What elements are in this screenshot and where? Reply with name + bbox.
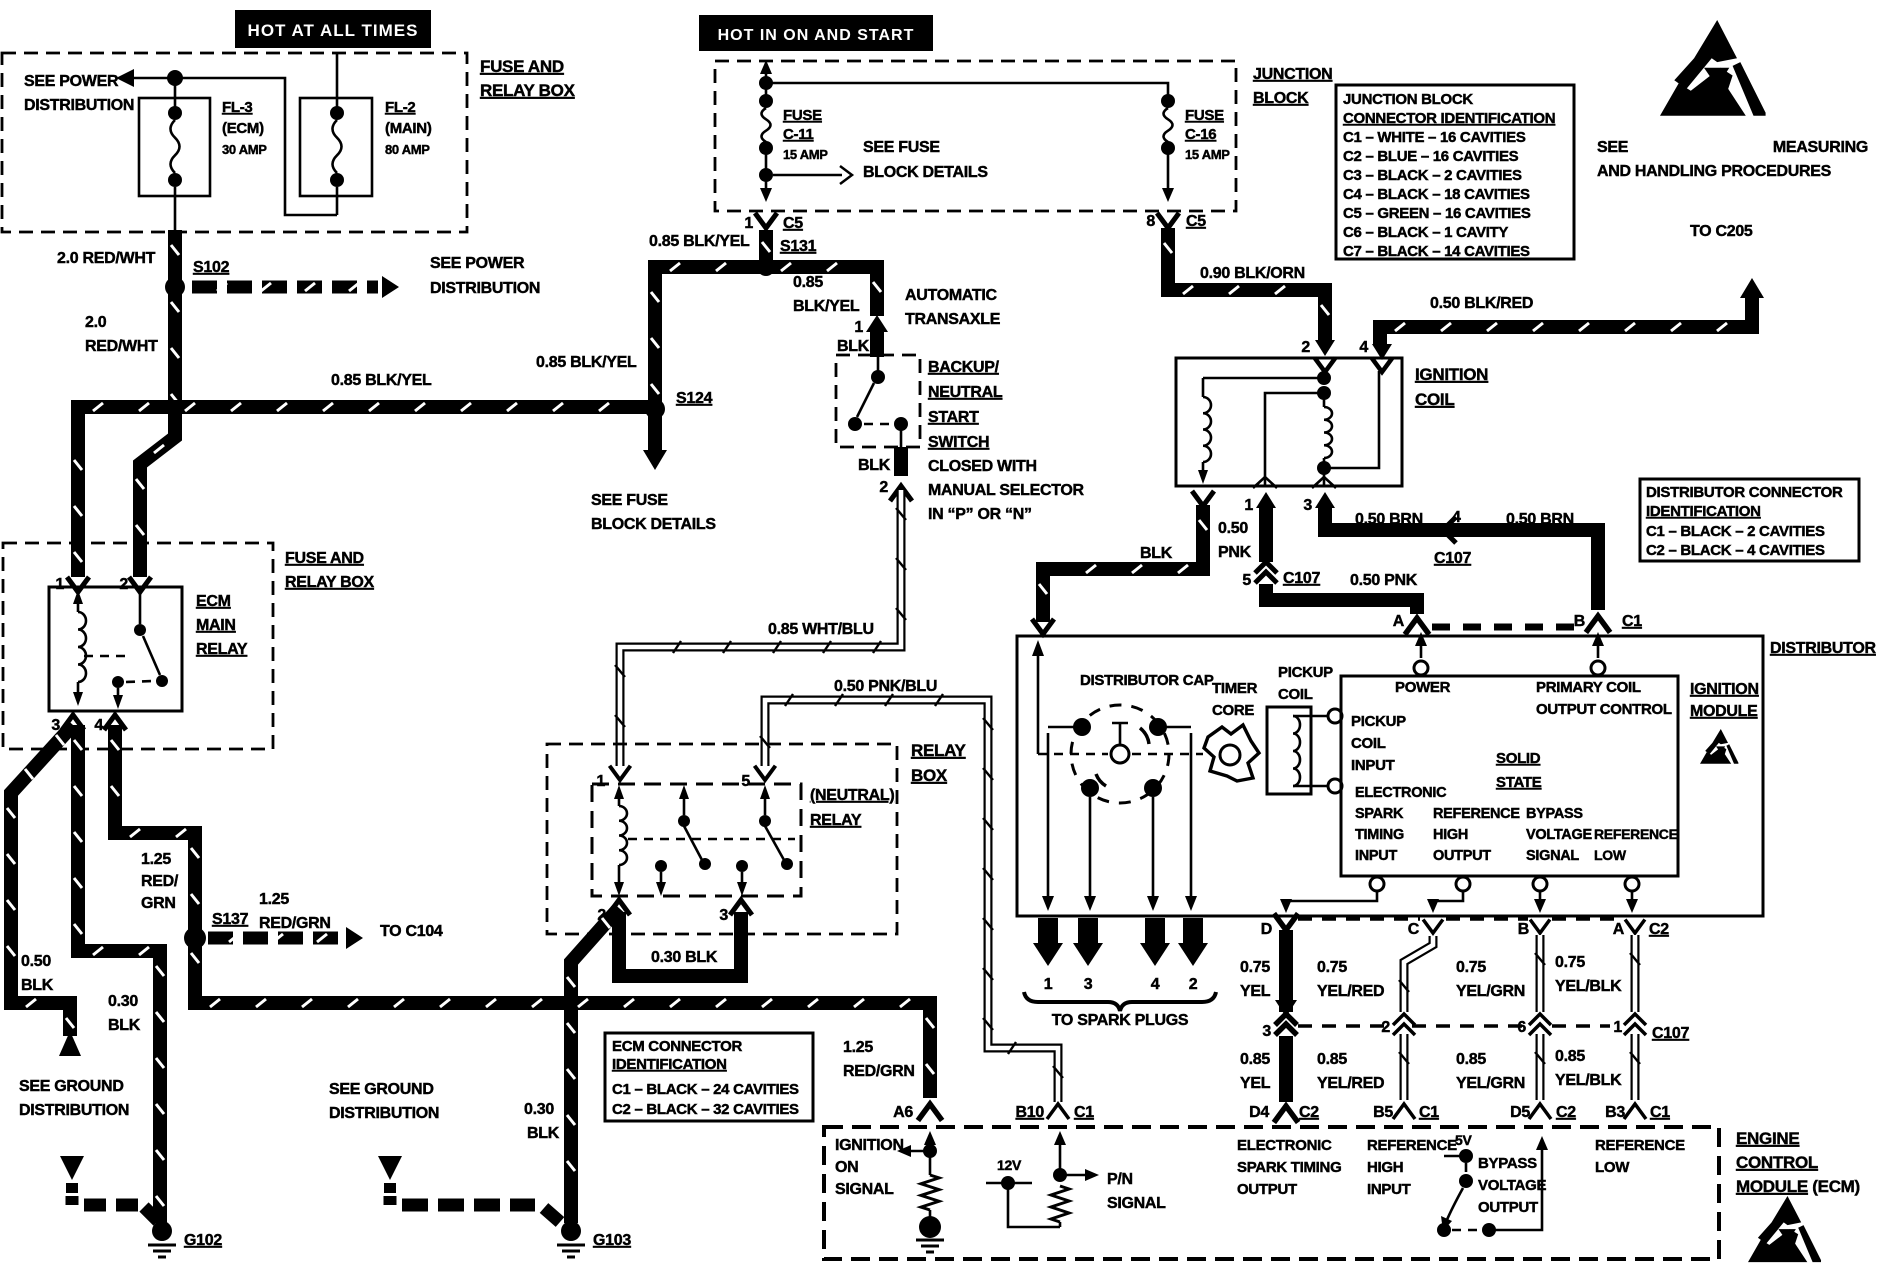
wire 0.90 BLK/ORN xyxy=(1164,228,1329,340)
svg-text:RED/GRN: RED/GRN xyxy=(843,1063,915,1080)
spark plug wire 2 xyxy=(1178,918,1208,993)
connector 1 (relay box) xyxy=(596,766,630,790)
svg-text:S124: S124 xyxy=(676,390,713,407)
svg-text:SIGNAL: SIGNAL xyxy=(1107,1195,1166,1212)
svg-text:15 AMP: 15 AMP xyxy=(783,147,828,162)
wire 0.75 YEL/GRN xyxy=(1535,935,1545,1012)
svg-text:DISTRIBUTOR CAP: DISTRIBUTOR CAP xyxy=(1080,672,1214,689)
neutral relay switch A xyxy=(655,785,711,896)
label 1.25 RED/GRN (vertical) xyxy=(141,851,179,912)
svg-text:C7 – BLACK – 14 CAVITIES: C7 – BLACK – 14 CAVITIES xyxy=(1343,243,1530,260)
svg-text:B10: B10 xyxy=(1016,1104,1045,1121)
svg-text:C1: C1 xyxy=(1650,1104,1670,1121)
svg-text:DISTRIBUTOR CONNECTOR: DISTRIBUTOR CONNECTOR xyxy=(1646,484,1843,501)
wire 0.85 YEL/BLK xyxy=(1630,1034,1640,1100)
node junction at FL-3 tap xyxy=(167,70,183,113)
label 0.85 YEL/BLK xyxy=(1555,1048,1622,1089)
spark plug wire 3 xyxy=(1073,918,1103,993)
svg-text:S102: S102 xyxy=(193,259,230,276)
svg-text:YEL: YEL xyxy=(1240,1075,1271,1092)
svg-text:2: 2 xyxy=(879,479,888,496)
svg-text:BLK: BLK xyxy=(108,1017,141,1034)
svg-text:STATE: STATE xyxy=(1496,774,1542,791)
svg-text:SOLID: SOLID xyxy=(1496,750,1541,767)
svg-text:C5 – GREEN – 16 CAVITIES: C5 – GREEN – 16 CAVITIES xyxy=(1343,205,1531,222)
svg-text:5: 5 xyxy=(741,773,750,790)
ECM relay switch xyxy=(112,592,168,709)
wire S137 to C104 (dashed arrow) xyxy=(208,927,363,949)
svg-text:C2: C2 xyxy=(1299,1104,1319,1121)
svg-text:0.50: 0.50 xyxy=(21,953,51,970)
svg-text:COIL: COIL xyxy=(1351,735,1386,752)
spark plug wire 1 xyxy=(1033,918,1063,993)
svg-text:OUTPUT: OUTPUT xyxy=(1478,1199,1538,1216)
svg-text:IGNITION: IGNITION xyxy=(1415,365,1488,384)
distributor cap xyxy=(1038,705,1203,803)
svg-text:0.85 BLK/YEL: 0.85 BLK/YEL xyxy=(536,354,637,371)
ground G103 xyxy=(378,1156,631,1257)
svg-text:LOW: LOW xyxy=(1595,1159,1630,1176)
ECM ignition-on input circuit xyxy=(897,1131,944,1252)
svg-text:TO SPARK PLUGS: TO SPARK PLUGS xyxy=(1052,1012,1189,1029)
ground G102 xyxy=(60,1156,222,1257)
svg-text:REFERENCE: REFERENCE xyxy=(1367,1137,1457,1154)
label fuse and relay box (ECM) xyxy=(285,550,375,591)
svg-text:AND HANDLING PROCEDURES: AND HANDLING PROCEDURES xyxy=(1597,163,1832,180)
svg-text:DISTRIBUTION: DISTRIBUTION xyxy=(24,97,134,114)
wire 0.50 PNK/BLU xyxy=(760,694,1063,1102)
label reference low xyxy=(1595,1137,1685,1176)
svg-text:TO C104: TO C104 xyxy=(380,923,443,940)
ignition module box xyxy=(1341,676,1678,876)
svg-text:ENGINE: ENGINE xyxy=(1736,1129,1799,1148)
svg-text:C2 – BLACK – 32 CAVITIES: C2 – BLACK – 32 CAVITIES xyxy=(612,1101,799,1118)
ECM fuse and relay box xyxy=(3,543,273,749)
svg-text:YEL/BLK: YEL/BLK xyxy=(1555,1072,1622,1089)
svg-text:TO C205: TO C205 xyxy=(1690,223,1753,240)
label 0.85 YEL xyxy=(1240,1051,1271,1092)
svg-text:1: 1 xyxy=(55,576,64,593)
svg-text:8: 8 xyxy=(1146,213,1155,230)
connector B C1 (distributor) xyxy=(1574,613,1643,633)
svg-text:0.50 BRN: 0.50 BRN xyxy=(1355,511,1423,528)
svg-text:0.75: 0.75 xyxy=(1240,959,1270,976)
svg-text:S131: S131 xyxy=(780,238,817,255)
label see fuse block details (junction) xyxy=(773,139,988,184)
svg-text:0.30 BLK: 0.30 BLK xyxy=(651,949,718,966)
svg-text:D4: D4 xyxy=(1249,1104,1269,1121)
fuse FL-2 (MAIN) 80 AMP xyxy=(300,53,432,215)
connector A (distributor) xyxy=(1393,613,1429,635)
svg-text:5V: 5V xyxy=(1455,1132,1472,1148)
svg-text:ELECTRONIC: ELECTRONIC xyxy=(1237,1137,1332,1154)
svg-text:3: 3 xyxy=(1303,497,1312,514)
wire 0.50 PNK (to distributor A) xyxy=(1266,584,1417,614)
module labels xyxy=(1351,679,1678,864)
fuse FL-3 (ECM) 30 AMP xyxy=(139,98,267,196)
svg-text:RELAY BOX: RELAY BOX xyxy=(285,574,375,591)
distributor connector identification table xyxy=(1640,479,1859,561)
connector B3 C1 xyxy=(1605,1104,1670,1121)
svg-text:SEE POWER: SEE POWER xyxy=(430,255,525,272)
wire 1.25 RED/GRN (pin 4 to S137) xyxy=(111,725,199,938)
svg-text:0.50 BLK/RED: 0.50 BLK/RED xyxy=(1430,295,1533,312)
svg-text:AUTOMATIC: AUTOMATIC xyxy=(905,287,998,304)
svg-text:START: START xyxy=(928,409,979,426)
pin 3 arrow (coil) xyxy=(1303,492,1335,514)
svg-text:C5: C5 xyxy=(1186,213,1206,230)
svg-text:RELAY BOX: RELAY BOX xyxy=(480,81,576,100)
connector 4 (ignition coil) xyxy=(1359,339,1392,360)
svg-text:ON: ON xyxy=(835,1159,858,1176)
ECM relay coil xyxy=(73,590,132,706)
ECM bypass circuit xyxy=(1437,1132,1548,1237)
svg-text:0.85: 0.85 xyxy=(1456,1051,1486,1068)
label 0.85 YEL/RED xyxy=(1317,1051,1384,1092)
label (neutral) relay xyxy=(810,787,894,829)
svg-text:4: 4 xyxy=(1452,509,1461,526)
connector B10 C1 xyxy=(1016,1104,1095,1121)
svg-text:FUSE AND: FUSE AND xyxy=(285,550,364,567)
wire 0.50 BRN (coil pin 3) xyxy=(1325,505,1598,610)
label 2.0 RED/WHT (lower) xyxy=(85,314,158,355)
module pin primary coil xyxy=(1591,632,1605,675)
svg-text:SEE GROUND: SEE GROUND xyxy=(329,1081,434,1098)
connector B xyxy=(1518,920,1550,939)
svg-text:0.85 BLK/YEL: 0.85 BLK/YEL xyxy=(649,233,750,250)
svg-text:HOT AT ALL TIMES: HOT AT ALL TIMES xyxy=(248,21,419,40)
label relay box xyxy=(911,741,967,785)
label 0.75 YEL/BLK xyxy=(1555,954,1622,995)
svg-text:FUSE: FUSE xyxy=(783,107,822,124)
dashed row C2 xyxy=(1298,917,1622,921)
connector 1 C5 xyxy=(744,213,803,232)
pin 3 (neutral relay) xyxy=(719,900,752,924)
connector 1 (transaxle switch) xyxy=(854,315,888,336)
svg-text:1: 1 xyxy=(744,215,753,232)
svg-text:ECM: ECM xyxy=(196,593,231,610)
spark plug wire 4 xyxy=(1140,918,1170,993)
backup/neutral start switch internals xyxy=(848,357,908,447)
pin 1 (ECM relay) xyxy=(55,576,89,593)
label see measuring and handling procedures xyxy=(1597,139,1868,180)
ignition coil internals xyxy=(1198,358,1392,488)
svg-text:YEL/GRN: YEL/GRN xyxy=(1456,983,1525,1000)
wire BLK below switch xyxy=(894,447,908,476)
wire 0.85 YEL/RED xyxy=(1399,1034,1409,1100)
label 0.75 YEL/RED xyxy=(1317,959,1384,1000)
svg-text:C2: C2 xyxy=(1556,1104,1576,1121)
svg-text:PNK: PNK xyxy=(1218,544,1252,561)
svg-text:0.50 BRN: 0.50 BRN xyxy=(1506,511,1574,528)
svg-text:YEL/GRN: YEL/GRN xyxy=(1456,1075,1525,1092)
svg-text:OUTPUT CONTROL: OUTPUT CONTROL xyxy=(1536,701,1672,718)
svg-text:HOT IN ON AND START: HOT IN ON AND START xyxy=(718,27,915,44)
svg-text:COIL: COIL xyxy=(1278,686,1313,703)
svg-text:IDENTIFICATION: IDENTIFICATION xyxy=(1646,503,1761,520)
wire 2.0 RED/WHT (FL-3 down) xyxy=(171,230,179,287)
svg-text:SEE POWER: SEE POWER xyxy=(24,73,119,90)
neutral relay box xyxy=(592,784,801,896)
svg-text:1.25: 1.25 xyxy=(259,891,289,908)
svg-text:C2: C2 xyxy=(1649,921,1669,938)
svg-text:C5: C5 xyxy=(783,215,803,232)
svg-text:SEE: SEE xyxy=(1597,139,1629,156)
svg-text:G103: G103 xyxy=(593,1232,631,1249)
fuse C-16 15 AMP xyxy=(1161,94,1230,202)
wire BLK into switch xyxy=(837,332,877,357)
svg-text:RELAY: RELAY xyxy=(810,812,862,829)
svg-text:12V: 12V xyxy=(997,1157,1022,1173)
svg-text:RELAY: RELAY xyxy=(196,641,248,658)
svg-text:C1 – WHITE – 16 CAVITIES: C1 – WHITE – 16 CAVITIES xyxy=(1343,129,1526,146)
label 0.85 BLK/YEL (below S131) xyxy=(793,274,860,315)
label 0.50 BLK xyxy=(21,953,54,994)
svg-text:BYPASS: BYPASS xyxy=(1526,806,1583,822)
label automatic transaxle xyxy=(905,287,1001,328)
svg-text:DISTRIBUTION: DISTRIBUTION xyxy=(430,280,540,297)
pin 2 (ECM relay) xyxy=(119,576,151,593)
svg-text:BLOCK DETAILS: BLOCK DETAILS xyxy=(591,516,716,533)
relay box (center) xyxy=(547,744,897,934)
wire BLK (coil to distributor) xyxy=(1039,505,1207,622)
wire 1.25 RED/GRN (long run to A6) xyxy=(191,938,934,1098)
svg-text:YEL: YEL xyxy=(1240,983,1271,1000)
svg-text:MODULE (ECM): MODULE (ECM) xyxy=(1736,1177,1860,1196)
svg-text:IDENTIFICATION: IDENTIFICATION xyxy=(612,1056,727,1073)
dashed link A to B xyxy=(1432,624,1586,631)
wire 0.85 BLK/YEL (relay pin1 to S124) xyxy=(74,403,655,577)
svg-text:RELAY: RELAY xyxy=(911,741,967,760)
ignition coil box xyxy=(1176,358,1402,486)
svg-text:0.50 PNK/BLU: 0.50 PNK/BLU xyxy=(834,678,937,695)
wire 0.85 YEL/GRN xyxy=(1535,1034,1545,1100)
svg-text:CONNECTOR IDENTIFICATION: CONNECTOR IDENTIFICATION xyxy=(1343,110,1555,127)
neutral relay switch B xyxy=(736,785,793,896)
ECM P/N signal circuit xyxy=(1051,1131,1099,1227)
svg-text:BLK: BLK xyxy=(837,338,870,355)
brace to spark plugs xyxy=(1024,992,1216,1011)
splice S102 xyxy=(165,259,230,297)
label 1.25 RED/GRN (S137) xyxy=(259,891,331,932)
ESD symbol (top right) xyxy=(1660,20,1766,116)
svg-text:JUNCTION BLOCK: JUNCTION BLOCK xyxy=(1343,91,1473,108)
svg-text:1: 1 xyxy=(596,773,605,790)
svg-text:BLK: BLK xyxy=(21,977,54,994)
svg-text:IGNITION: IGNITION xyxy=(1690,681,1759,698)
connector D5 C2 xyxy=(1510,1104,1576,1121)
label engine control module xyxy=(1736,1129,1860,1196)
svg-text:4: 4 xyxy=(1359,339,1368,356)
svg-text:MODULE: MODULE xyxy=(1690,703,1758,720)
connector 1 C107 (A col) xyxy=(1613,1014,1689,1042)
svg-text:30 AMP: 30 AMP xyxy=(222,142,267,157)
svg-text:CORE: CORE xyxy=(1212,702,1254,719)
svg-text:2: 2 xyxy=(119,576,128,593)
svg-text:3: 3 xyxy=(1262,1023,1271,1040)
label 0.85 YEL/GRN xyxy=(1456,1051,1525,1092)
label backup/neutral start switch xyxy=(928,359,1085,523)
pin BLK (coil) xyxy=(1140,491,1214,562)
module pin ref low xyxy=(1625,877,1639,913)
svg-text:B: B xyxy=(1518,921,1529,938)
svg-text:2: 2 xyxy=(1189,976,1198,993)
svg-text:JUNCTION: JUNCTION xyxy=(1253,66,1332,83)
svg-text:VOLTAGE: VOLTAGE xyxy=(1478,1177,1546,1194)
header HOT IN ON AND START xyxy=(699,15,933,51)
svg-text:INPUT: INPUT xyxy=(1351,757,1395,774)
wire S124 up to S131 xyxy=(651,263,766,409)
wire 0.30 BLK to G102 xyxy=(74,725,164,1223)
label reference high input xyxy=(1367,1137,1457,1198)
svg-text:BLK: BLK xyxy=(858,457,891,474)
svg-text:C6 – BLACK – 1 CAVITY: C6 – BLACK – 1 CAVITY xyxy=(1343,224,1508,241)
fuse and relay box (top) xyxy=(2,53,467,232)
svg-text:INPUT: INPUT xyxy=(1355,848,1397,864)
label see ground distribution (left) xyxy=(19,1078,129,1119)
svg-text:1: 1 xyxy=(1044,976,1053,993)
svg-text:FUSE AND: FUSE AND xyxy=(480,57,564,76)
svg-text:OUTPUT: OUTPUT xyxy=(1237,1181,1297,1198)
svg-text:15 AMP: 15 AMP xyxy=(1185,147,1230,162)
svg-text:BLK: BLK xyxy=(1140,545,1173,562)
svg-text:HIGH: HIGH xyxy=(1433,827,1468,843)
svg-text:TIMING: TIMING xyxy=(1355,827,1404,843)
pin 3 (ECM relay) xyxy=(51,715,84,734)
connector 5 (relay box) xyxy=(741,766,775,790)
svg-text:CLOSED WITH: CLOSED WITH xyxy=(928,458,1037,475)
svg-text:C2 – BLUE – 16 CAVITIES: C2 – BLUE – 16 CAVITIES xyxy=(1343,148,1519,165)
svg-text:PICKUP: PICKUP xyxy=(1278,664,1333,681)
svg-text:SIGNAL: SIGNAL xyxy=(1526,848,1579,864)
module pin power xyxy=(1414,632,1428,675)
svg-text:0.50: 0.50 xyxy=(1218,520,1248,537)
svg-text:1.25: 1.25 xyxy=(843,1039,873,1056)
svg-text:C1: C1 xyxy=(1622,613,1642,630)
svg-text:0.75: 0.75 xyxy=(1317,959,1347,976)
svg-text:SPARK: SPARK xyxy=(1355,806,1404,822)
svg-text:DISTRIBUTION: DISTRIBUTION xyxy=(19,1102,129,1119)
svg-text:C-11: C-11 xyxy=(783,126,814,143)
svg-text:B5: B5 xyxy=(1373,1104,1393,1121)
svg-text:P/N: P/N xyxy=(1107,1171,1133,1188)
label see power distribution (right of S102) xyxy=(430,255,540,297)
wire 0.85 YEL xyxy=(1279,1036,1293,1102)
svg-text:6: 6 xyxy=(1517,1019,1526,1036)
pickup coil xyxy=(1267,664,1342,794)
svg-text:C107: C107 xyxy=(1652,1025,1689,1042)
svg-text:B3: B3 xyxy=(1605,1104,1625,1121)
svg-text:REFERENCE: REFERENCE xyxy=(1433,806,1520,822)
svg-text:A6: A6 xyxy=(893,1104,913,1121)
svg-text:C-16: C-16 xyxy=(1185,126,1216,143)
connector A C2 xyxy=(1613,920,1670,939)
svg-text:DISTRIBUTOR: DISTRIBUTOR xyxy=(1770,640,1876,657)
svg-text:FL-2: FL-2 xyxy=(385,99,415,116)
label ignition on signal xyxy=(835,1137,904,1198)
svg-text:0.85: 0.85 xyxy=(1555,1048,1585,1065)
module pin bypass xyxy=(1533,877,1547,913)
connector (distributor BLK input) xyxy=(1032,619,1054,634)
label 1.25 RED/GRN (A6) xyxy=(843,1039,915,1080)
svg-text:YEL/BLK: YEL/BLK xyxy=(1555,978,1622,995)
connector D4 C2 xyxy=(1249,1104,1319,1123)
connector 5 C107 xyxy=(1242,562,1320,589)
svg-text:0.85 BLK/YEL: 0.85 BLK/YEL xyxy=(331,372,432,389)
svg-text:BYPASS: BYPASS xyxy=(1478,1155,1537,1172)
svg-text:LOW: LOW xyxy=(1594,847,1627,863)
engine control module box xyxy=(824,1127,1719,1259)
splice S124 xyxy=(645,390,713,419)
connector D xyxy=(1261,914,1298,939)
svg-text:1: 1 xyxy=(1244,497,1253,514)
junction block box xyxy=(715,61,1236,211)
svg-text:0.85: 0.85 xyxy=(1240,1051,1270,1068)
wire 0.75 YEL/BLK xyxy=(1630,935,1640,1012)
svg-text:REFERENCE: REFERENCE xyxy=(1595,1137,1685,1154)
svg-text:MEASURING: MEASURING xyxy=(1773,139,1868,156)
label 0.75 YEL xyxy=(1240,959,1271,1000)
arrow 0.75 YEL xyxy=(1275,1000,1297,1017)
label bypass voltage output xyxy=(1478,1155,1546,1216)
ECM 12V node xyxy=(986,1157,1060,1227)
fuse C-11 15 AMP xyxy=(759,60,828,202)
arrow to C205 xyxy=(1740,278,1764,298)
distributor internal BLK line xyxy=(1032,640,1044,754)
wire S102 to power distribution (dashed arrow) xyxy=(192,276,399,298)
wire 0.30 BLK (neutral relay U) xyxy=(619,912,741,976)
svg-text:D: D xyxy=(1261,921,1272,938)
svg-text:SEE FUSE: SEE FUSE xyxy=(591,492,668,509)
svg-text:C3 – BLACK – 2 CAVITIES: C3 – BLACK – 2 CAVITIES xyxy=(1343,167,1522,184)
svg-text:FUSE: FUSE xyxy=(1185,107,1224,124)
svg-text:G102: G102 xyxy=(184,1232,222,1249)
connector 6 (B col) xyxy=(1517,1014,1551,1036)
wire 0.50 PNK (coil pin 1) xyxy=(1259,505,1273,562)
label 0.30 BLK (G103) xyxy=(524,1101,560,1142)
module pin ref high xyxy=(1427,877,1470,913)
svg-text:RED/GRN: RED/GRN xyxy=(259,915,331,932)
label electronic spark timing output xyxy=(1237,1137,1341,1198)
wire FL-3 to S102 xyxy=(174,187,177,235)
svg-text:SPARK TIMING: SPARK TIMING xyxy=(1237,1159,1341,1176)
pin 4 (ECM relay) xyxy=(94,715,126,734)
svg-text:3: 3 xyxy=(1084,976,1093,993)
wire 0.75 YEL xyxy=(1279,930,1293,1012)
svg-text:S137: S137 xyxy=(212,911,249,928)
svg-text:MAIN: MAIN xyxy=(196,617,236,634)
label see power distribution (left) xyxy=(24,73,134,114)
ESD symbol (module) xyxy=(1700,729,1738,764)
svg-text:0.90 BLK/ORN: 0.90 BLK/ORN xyxy=(1200,265,1305,282)
backup/neutral start switch box xyxy=(836,355,920,447)
svg-text:C107: C107 xyxy=(1434,550,1471,567)
svg-text:PICKUP: PICKUP xyxy=(1351,713,1406,730)
svg-text:(MAIN): (MAIN) xyxy=(385,120,432,137)
label P/N signal xyxy=(1107,1171,1166,1212)
svg-text:C1 – BLACK – 24 CAVITIES: C1 – BLACK – 24 CAVITIES xyxy=(612,1081,799,1098)
svg-text:BLK/YEL: BLK/YEL xyxy=(793,298,860,315)
svg-text:C1: C1 xyxy=(1074,1104,1094,1121)
wire to power distribution (thin, arrow left) xyxy=(116,69,337,215)
wire 0.85 BLK/YEL S131 to transaxle switch xyxy=(766,263,881,316)
label 0.30 BLK (G102) xyxy=(108,993,141,1034)
connector 3 C107 (D col) xyxy=(1262,1014,1297,1040)
svg-text:RED/WHT: RED/WHT xyxy=(85,338,158,355)
connector A6 xyxy=(893,1104,942,1121)
svg-text:BOX: BOX xyxy=(911,766,948,785)
svg-text:(NEUTRAL): (NEUTRAL) xyxy=(810,787,894,804)
